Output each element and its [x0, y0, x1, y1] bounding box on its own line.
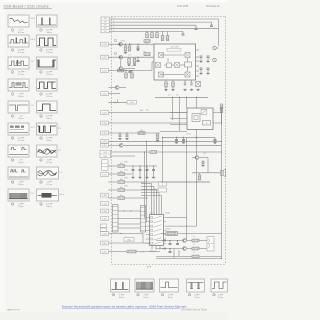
- wire y251.5: [109, 251, 128, 253]
- wire bus line 3: [110, 24, 197, 26]
- resistor R23: [118, 195, 125, 200]
- capacitor C4: [137, 47, 140, 48]
- capacitor C8: [126, 135, 129, 136]
- svg-text:64 µs: 64 µs: [119, 297, 124, 299]
- svg-text:64 µs: 64 µs: [18, 184, 23, 186]
- svg-text:0.4 V: 0.4 V: [31, 39, 36, 41]
- svg-text:2: 2: [40, 30, 41, 32]
- wire y87: [109, 87, 116, 89]
- svg-text:0.47µ: 0.47µ: [129, 102, 134, 104]
- svg-text:4.7k: 4.7k: [203, 153, 206, 155]
- resistor R31: [192, 255, 199, 258]
- resistor R29: [192, 239, 199, 242]
- wire stub: [169, 249, 171, 252]
- resistor R19: [118, 163, 125, 168]
- board boundary dashed top: [112, 16, 226, 18]
- capacitor C18: [182, 140, 185, 141]
- wire ladder y166 cont: [125, 165, 158, 167]
- resistor R1: [146, 33, 149, 38]
- wire vert x186.5: [186, 97, 188, 108]
- wire stub: [183, 137, 185, 139]
- svg-text:100: 100: [120, 195, 123, 197]
- capacitor C11: [146, 170, 149, 171]
- ground: [145, 176, 148, 178]
- ground: [199, 72, 202, 74]
- svg-text:100: 100: [120, 171, 123, 173]
- wire stub: [176, 137, 178, 139]
- svg-text:R641: R641: [124, 162, 128, 164]
- wire stub: [151, 31, 153, 32]
- wire ic drop 4: [158, 193, 160, 215]
- svg-text:14: 14: [40, 160, 42, 162]
- wire ic feed 4: [141, 192, 159, 194]
- wire capdrop2: [153, 171, 155, 176]
- diode D2: [190, 83, 192, 85]
- capacitor C10: [139, 170, 142, 171]
- ground: [136, 49, 139, 51]
- svg-text:. . .: . . .: [58, 20, 61, 22]
- wire stub: [129, 44, 131, 46]
- wire row y248.5: [156, 248, 183, 250]
- wire q rows right: [187, 240, 192, 242]
- svg-text:▬▬: ▬▬: [141, 182, 145, 184]
- resistor R7: [128, 46, 131, 51]
- connector CB1 block: [101, 17, 110, 33]
- mixer block: [175, 63, 180, 68]
- wire capdrop2: [139, 171, 141, 176]
- ground: [196, 89, 199, 91]
- connector pin: [101, 92, 109, 96]
- svg-text:+ × ×: + × ×: [140, 251, 144, 254]
- svg-text:✱ ✱: ✱ ✱: [147, 266, 151, 269]
- waveform caption 15: [11, 181, 23, 186]
- wire capdrop: [146, 166, 148, 170]
- waveform caption 10: [40, 115, 53, 120]
- svg-text:16: 16: [40, 182, 42, 184]
- svg-text:23: 23: [213, 295, 215, 297]
- svg-text:64 µs: 64 µs: [47, 118, 52, 120]
- wire ic right y218: [166, 217, 187, 219]
- capacitor C21: [169, 244, 172, 245]
- wire: [200, 69, 202, 72]
- wire boxA pin: [196, 49, 200, 51]
- svg-text:2.2k: 2.2k: [128, 55, 131, 57]
- wire capdrop2: [146, 171, 148, 176]
- svg-text:6: 6: [40, 72, 41, 74]
- svg-text:0.2 ms: 0.2 ms: [46, 74, 52, 76]
- resistor R9: [128, 59, 131, 64]
- connector pin: [101, 202, 109, 206]
- wire y133: [109, 132, 161, 134]
- svg-text:64 µs: 64 µs: [218, 297, 223, 299]
- wire stub: [131, 71, 133, 74]
- wire bus line 4: [110, 27, 219, 29]
- svg-text:501: 501: [104, 31, 107, 33]
- mixer block: [185, 53, 190, 58]
- wire vert x221.5 mid: [221, 107, 223, 258]
- transistor Q4: [115, 86, 119, 90]
- signal arrow: [162, 239, 166, 241]
- wire stub: [128, 57, 130, 58]
- wire bus drop 1: [211, 22, 213, 25]
- resistor R28: [168, 232, 177, 235]
- svg-text:12 V: 12 V: [31, 127, 36, 129]
- wire q out right: [123, 144, 221, 146]
- svg-text:IC640: IC640: [165, 213, 170, 215]
- waveform caption 12: [40, 137, 53, 142]
- wire boxA pin: [196, 70, 200, 72]
- wire capdrop: [153, 166, 155, 170]
- ground: [125, 138, 128, 140]
- waveform caption 8: [40, 93, 53, 98]
- connector pin: [101, 121, 109, 125]
- svg-text:10k: 10k: [143, 52, 146, 54]
- oscillogram ramp waveform 1: [8, 15, 29, 27]
- wire vert x208: [207, 158, 209, 173]
- wire y218: [118, 218, 141, 220]
- transistor Q1: [119, 42, 123, 46]
- svg-text:20: 20: [137, 295, 139, 297]
- board boundary dashed bottom: [112, 264, 226, 266]
- ground: [164, 89, 167, 91]
- capacitor C2: [195, 28, 198, 29]
- board boundary dashed left: [111, 17, 113, 265]
- ground: [118, 138, 121, 140]
- op-amp U1 switch IC: [146, 215, 167, 246]
- oscillogram OSD level waveform 11: [8, 123, 29, 135]
- capacitor C17: [175, 140, 178, 141]
- wire ladder y166: [108, 165, 118, 167]
- ground: [175, 141, 178, 143]
- resistor R5: [166, 36, 169, 41]
- wire bus line 5: [110, 30, 184, 32]
- capacitor C12: [152, 170, 155, 171]
- inner wires: [164, 64, 167, 66]
- capacitor C13: [200, 56, 203, 57]
- resistor R24: [165, 82, 168, 87]
- mixer small: [196, 82, 201, 87]
- connector pin: [101, 69, 109, 73]
- page left margin: [0, 0, 5, 320]
- wire vert x179.5: [179, 97, 181, 131]
- wire stub: [156, 31, 158, 32]
- waveform caption 3: [11, 49, 24, 54]
- transistor Q6: [195, 156, 199, 160]
- waveform caption 16: [40, 181, 52, 186]
- svg-text:0.1 µs: 0.1 µs: [46, 184, 52, 186]
- svg-text:. . .: . . .: [31, 171, 34, 173]
- wire q down: [120, 59, 122, 66]
- mixer block: [185, 72, 190, 77]
- wire ic drop 3: [156, 190, 158, 215]
- waveform caption 5: [11, 71, 24, 76]
- waveform caption 13: [11, 159, 23, 164]
- oscillogram bottom pulse waveform 21: [160, 279, 179, 292]
- oscillogram square waveform 6: [37, 57, 58, 69]
- signal arrow: [162, 247, 166, 249]
- label box: [124, 238, 134, 242]
- capacitor C6: [129, 72, 132, 73]
- capacitor C23: [169, 252, 172, 253]
- oscillogram pulse waveform 12: [37, 123, 58, 135]
- transistor Q2: [119, 55, 123, 59]
- svg-text:3.3k: 3.3k: [140, 130, 143, 132]
- wire vert x172.5: [172, 97, 174, 120]
- page top margin: [0, 0, 228, 3]
- oscillogram sine waveform 14: [37, 145, 58, 157]
- wire ic drop 1: [151, 184, 153, 215]
- waveform caption 22: [188, 293, 199, 298]
- wire ladder y198 cont: [125, 197, 149, 199]
- wire ic drop 5: [161, 196, 163, 215]
- connector pin: [101, 42, 109, 46]
- svg-text:CR680: CR680: [165, 229, 170, 231]
- wire bus vertical right: [218, 19, 220, 46]
- wire stub: [172, 80, 174, 82]
- resistor R20: [118, 171, 125, 176]
- wire ladder y190: [108, 189, 118, 191]
- svg-text:0.2 ms: 0.2 ms: [18, 74, 24, 76]
- watermark underline: [62, 307, 180, 309]
- IC U3 filter block: [187, 108, 213, 130]
- svg-text:64 µs: 64 µs: [194, 297, 199, 299]
- vertical cap x215: [214, 137, 216, 139]
- resistor R13: [125, 73, 128, 78]
- ground: [138, 176, 141, 178]
- wire q2 right: [123, 68, 135, 70]
- wire y173: [192, 172, 221, 174]
- wire to right conn: [199, 240, 207, 242]
- oscillogram pulse waveform 3: [8, 35, 29, 47]
- oscillogram pulse waveform 5: [8, 57, 29, 69]
- wire stub: [119, 133, 121, 135]
- wire ladder y182: [108, 181, 118, 183]
- waveform caption 2: [40, 29, 53, 34]
- mixer block: [159, 53, 164, 58]
- svg-text:0.2 ms: 0.2 ms: [18, 52, 24, 54]
- capacitor C15: [207, 56, 210, 57]
- wire bus drop 2: [195, 25, 197, 28]
- wire boxB bottom: [196, 130, 198, 138]
- oscillogram bottom burst waveform 20: [135, 279, 154, 292]
- mixer block: [159, 72, 164, 77]
- wire y152 cont: [157, 151, 222, 153]
- wire r link: [146, 42, 148, 44]
- wire y57: [109, 56, 155, 58]
- svg-text:▸: ▸: [114, 16, 115, 19]
- connector right CB5: [207, 237, 214, 252]
- connector pin: [101, 250, 109, 254]
- wire cap drop: [137, 44, 139, 47]
- board boundary dashed right: [225, 17, 227, 265]
- svg-text:301: 301: [104, 25, 107, 27]
- transistor Q7: [183, 239, 187, 243]
- svg-text:AV2: AV2: [140, 109, 143, 112]
- svg-text:7: 7: [12, 94, 13, 96]
- svg-text:22: 22: [188, 295, 190, 297]
- svg-text:8: 8: [40, 94, 41, 96]
- svg-text:GRUNDIG Service Techn.: GRUNDIG Service Techn.: [181, 309, 208, 312]
- diode D1: [184, 83, 186, 85]
- svg-text:4.4 V: 4.4 V: [60, 194, 65, 196]
- wire vert x196.5 seg2: [196, 159, 198, 226]
- wire tp: [216, 47, 218, 49]
- resistor R4: [161, 36, 164, 41]
- connector pin: [101, 241, 109, 245]
- oscillogram pulse waveform 9: [8, 101, 29, 113]
- capacitor C16: [207, 68, 210, 69]
- svg-text:401: 401: [104, 28, 107, 30]
- page background: [0, 0, 228, 320]
- capacitor C3: [182, 34, 185, 35]
- ground: [171, 89, 174, 91]
- waveform caption 14: [40, 159, 52, 164]
- wire y152: [111, 151, 151, 153]
- resistor R10: [133, 59, 136, 64]
- ground: [199, 60, 202, 62]
- connector pin: [101, 55, 109, 59]
- ground: [133, 64, 136, 66]
- aux 2-cell box: [159, 182, 167, 186]
- ground: [127, 64, 130, 66]
- wire branch: [137, 57, 139, 60]
- wire y131.5: [160, 131, 187, 133]
- svg-text:15: 15: [11, 182, 13, 184]
- wire capdrop: [132, 166, 134, 170]
- test point circle: [114, 52, 117, 55]
- wire ladder y174: [108, 173, 118, 175]
- wire ic feed 3: [141, 189, 157, 191]
- connector pin: [101, 140, 109, 143]
- svg-text:64 µs: 64 µs: [18, 118, 23, 120]
- wire q: [192, 157, 195, 159]
- waveform caption 18: [40, 203, 53, 208]
- wire q out: [119, 87, 126, 89]
- wire: [200, 57, 202, 60]
- resistor R12: [118, 69, 125, 72]
- svg-text:10: 10: [40, 116, 42, 118]
- svg-text:64 µs: 64 µs: [47, 140, 52, 142]
- wire vert x162.5: [162, 137, 164, 182]
- svg-text:Больше бесплатной документации: Больше бесплатной документации на нашем …: [62, 304, 187, 308]
- resistor R6: [124, 46, 127, 51]
- wire stub: [202, 160, 204, 162]
- wire y145.5: [109, 144, 120, 146]
- waveform caption 7: [11, 93, 23, 98]
- svg-text:0.2 ms: 0.2 ms: [18, 32, 24, 34]
- svg-text:1k: 1k: [193, 252, 195, 254]
- connector pin: [101, 131, 109, 135]
- wire stub: [126, 133, 128, 135]
- svg-text:64 µs: 64 µs: [18, 206, 23, 208]
- wire stub: [177, 241, 179, 244]
- wire vert x179 down: [178, 250, 180, 257]
- svg-text:CUC 1935: CUC 1935: [177, 5, 189, 8]
- svg-text:64 µs: 64 µs: [143, 297, 148, 299]
- wire stub: [167, 31, 169, 35]
- wire y70.5: [109, 70, 153, 72]
- speaker jack: [221, 169, 226, 177]
- ground: [131, 176, 134, 178]
- connector small pair: [101, 224, 107, 227]
- ground: [206, 60, 209, 62]
- wire capdrop2: [132, 171, 134, 176]
- wire stub: [129, 71, 131, 72]
- svg-text:R643: R643: [124, 178, 128, 180]
- resistor R21: [118, 179, 125, 184]
- ground: [124, 52, 127, 54]
- waveform caption 1: [11, 29, 24, 34]
- bottom left small line: [7, 309, 20, 311]
- svg-text:5: 5: [12, 72, 13, 74]
- wire y224: [118, 223, 141, 225]
- svg-text:▸: ▸: [114, 23, 115, 26]
- oscillogram bottom pulse waveform 19: [111, 279, 130, 292]
- svg-text:21: 21: [161, 295, 163, 297]
- resistor R26: [220, 104, 223, 109]
- resistor R17: [156, 134, 159, 139]
- connector CB3 block: [102, 160, 109, 171]
- resistor R8: [144, 40, 150, 43]
- svg-text:3: 3: [12, 50, 13, 52]
- capacitor C22: [176, 244, 179, 245]
- wire stub: [125, 71, 127, 74]
- wire ic right y226: [166, 225, 197, 227]
- page bottom margin: [0, 312, 228, 320]
- transistor Q5: [119, 143, 123, 147]
- wire y137: [162, 136, 215, 138]
- wire vert x174 down: [173, 249, 175, 259]
- svg-text:▸: ▸: [114, 29, 115, 32]
- oscillogram burst waveform 18: [37, 189, 59, 201]
- wire y102: [109, 101, 128, 103]
- svg-text:0.2 ms: 0.2 ms: [46, 52, 52, 54]
- resistor R14: [131, 73, 134, 78]
- wire down to box: [151, 62, 153, 71]
- wire stub: [184, 80, 186, 83]
- ground: [213, 141, 216, 143]
- capacitor C5: [137, 61, 140, 62]
- resistor R30: [192, 247, 199, 250]
- capacitor C20: [202, 162, 205, 163]
- wire y97: [155, 96, 208, 98]
- svg-text:CIC 2391: CIC 2391: [170, 47, 179, 49]
- connector pin: [101, 232, 109, 236]
- wire ic drop 2: [153, 187, 155, 215]
- wire bus line 1: [110, 18, 219, 20]
- ground: [152, 176, 155, 178]
- wire capdrop: [139, 166, 141, 170]
- oscillogram pulse waveform 15: [8, 167, 29, 179]
- svg-text:9: 9: [12, 116, 13, 118]
- svg-text:AV1: AV1: [146, 109, 149, 112]
- svg-text:4.8 V: 4.8 V: [31, 18, 36, 20]
- wire vert x186.5 long: [186, 137, 188, 240]
- transistor Q8: [183, 247, 187, 251]
- wire y251.5 cont: [136, 251, 160, 253]
- svg-text:64 µs: 64 µs: [18, 162, 23, 164]
- wire x143 vert: [142, 234, 144, 244]
- svg-text:1435: 1435: [103, 156, 107, 158]
- wire ic feed 1: [141, 183, 152, 185]
- capacitor C14: [200, 68, 203, 69]
- IC U2 DAC block: [154, 44, 196, 80]
- wire y243: [109, 242, 151, 244]
- svg-text:▸: ▸: [114, 20, 115, 23]
- connector pin: [101, 173, 109, 177]
- wire ic feed 5: [141, 195, 162, 197]
- resistor below jack: [199, 173, 201, 175]
